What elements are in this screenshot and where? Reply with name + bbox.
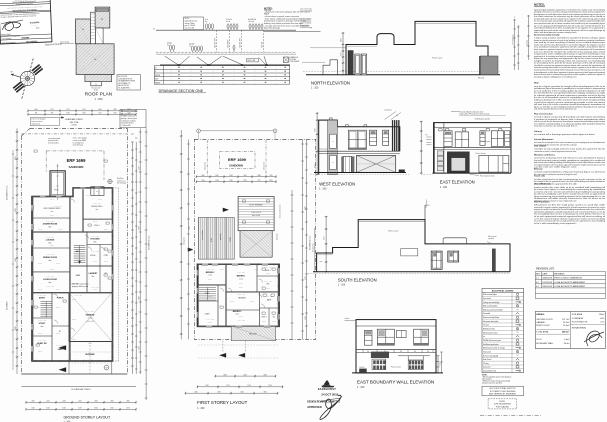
svg-text:DRIVEWAY: DRIVEWAY xyxy=(85,353,95,356)
svg-text:3234: 3234 xyxy=(240,392,243,394)
svg-text:- 110 bw -: - 110 bw - xyxy=(87,343,93,345)
svg-text:3 220: 3 220 xyxy=(305,276,307,280)
svg-text:3 470 x 4 120: 3 470 x 4 120 xyxy=(237,320,245,322)
svg-text:1218: 1218 xyxy=(127,113,130,115)
svg-text:3301: 3301 xyxy=(263,392,266,394)
svg-text:Gas Outlets: Gas Outlets xyxy=(534,144,547,147)
svg-text:INV LEVEL: INV LEVEL xyxy=(289,59,296,61)
svg-text:roof line: roof line xyxy=(345,318,350,320)
svg-text:2353: 2353 xyxy=(243,374,246,376)
svg-text:ALL STRUCTURAL SUPPORT: ALL STRUCTURAL SUPPORT xyxy=(490,387,517,390)
svg-text:3 470 x 4 120: 3 470 x 4 120 xyxy=(264,281,272,283)
svg-text:Use of Materials: Use of Materials xyxy=(534,183,552,186)
svg-text:- 110 bw -: - 110 bw - xyxy=(265,288,271,290)
svg-text:- 110 bw -: - 110 bw - xyxy=(71,319,77,321)
svg-text:to be is with immediately scal: to be is with immediately scale approved… xyxy=(534,222,577,225)
svg-text:pipe @ 1:60 fall: pipe @ 1:60 fall xyxy=(185,25,196,27)
svg-text:- 110 bw -: - 110 bw - xyxy=(103,229,109,231)
svg-text:1186: 1186 xyxy=(230,180,233,182)
svg-text:4 560: 4 560 xyxy=(139,226,141,230)
svg-text:3 470 x 4 120: 3 470 x 4 120 xyxy=(237,294,245,296)
svg-text:3 470 x 4 120: 3 470 x 4 120 xyxy=(93,203,101,205)
svg-text:289.8m²: 289.8m² xyxy=(562,331,570,334)
svg-text:3 470 x 4 120: 3 470 x 4 120 xyxy=(74,295,82,297)
svg-text:1200: 1200 xyxy=(34,109,37,111)
svg-text:1558: 1558 xyxy=(62,408,65,410)
sheet bottom dash-dot line xyxy=(480,415,541,417)
svg-text:Windows and Doors: Windows and Doors xyxy=(534,154,556,156)
svg-text:1165: 1165 xyxy=(114,113,117,115)
svg-text:SANDOWN: SANDOWN xyxy=(69,165,84,169)
svg-text:EN-S 3: EN-S 3 xyxy=(262,316,267,318)
svg-text:3 470 x 4 120: 3 470 x 4 120 xyxy=(46,221,54,223)
svg-text:40d 40d 50d: 40d 40d 50d xyxy=(248,19,256,21)
svg-text:2a: 2a xyxy=(95,84,97,86)
svg-text:3 470 x 4 120: 3 470 x 4 120 xyxy=(38,320,46,322)
svg-text:NOTES:: NOTES: xyxy=(534,2,545,6)
svg-text:GL: GL xyxy=(153,29,155,31)
svg-text:GULLY+RE: GULLY+RE xyxy=(247,60,255,62)
svg-text:2300: 2300 xyxy=(223,374,226,376)
roof note box 2 xyxy=(120,110,146,128)
svg-text:DEPTH: DEPTH xyxy=(155,75,160,77)
svg-text:3 470 x 4 120: 3 470 x 4 120 xyxy=(46,276,54,278)
north elevation right dimension lines xyxy=(512,15,530,70)
svg-text:B 2019/06: B 2019/06 xyxy=(30,22,40,24)
svg-text:1315: 1315 xyxy=(269,180,272,182)
svg-text:- 110 bw -: - 110 bw - xyxy=(253,269,259,271)
svg-text:2264: 2264 xyxy=(94,401,97,403)
svg-text:and will the specified thereto: and will the specified thereto on check … xyxy=(534,108,577,111)
svg-text:SANDOWN: SANDOWN xyxy=(229,164,243,168)
svg-text:2.5m x 1.5m splayed: 2.5m x 1.5m splayed xyxy=(73,138,87,140)
svg-text:FIRST COUNCIL SUBMISSION: FIRST COUNCIL SUBMISSION xyxy=(554,278,582,280)
svg-text:liquid toilet drainage: liquid toilet drainage xyxy=(264,27,280,30)
svg-text:boundary: boundary xyxy=(527,40,529,46)
svg-text:36.2m²: 36.2m² xyxy=(563,321,570,324)
svg-text:- 110 bw -: - 110 bw - xyxy=(55,333,61,335)
svg-text:3 470 x 4 120: 3 470 x 4 120 xyxy=(264,267,272,269)
svg-text:1112: 1112 xyxy=(99,113,102,115)
svg-text:1700: 1700 xyxy=(205,385,208,387)
svg-text:POOL: POOL xyxy=(54,190,59,192)
svg-text:2 890: 2 890 xyxy=(139,296,141,300)
svg-text:850: 850 xyxy=(400,351,402,353)
svg-text:→: → xyxy=(492,164,494,166)
svg-text:2 870: 2 870 xyxy=(341,38,343,42)
svg-text:- 110 bw -: - 110 bw - xyxy=(55,307,61,309)
svg-text:3 220: 3 220 xyxy=(15,208,17,212)
svg-text:AND VERIFIED BY ENGINEER.: AND VERIFIED BY ENGINEER. xyxy=(489,392,517,395)
svg-text:4 BDRM ROOM: 4 BDRM ROOM xyxy=(43,223,58,226)
svg-text:4 870: 4 870 xyxy=(15,156,17,160)
svg-text:AREAS:: AREAS: xyxy=(536,313,545,316)
svg-text:Date: Date xyxy=(36,26,40,29)
svg-text:2.5m x 1.5m splayed: 2.5m x 1.5m splayed xyxy=(31,119,45,121)
svg-text:1 : 100: 1 : 100 xyxy=(197,407,205,410)
svg-text:FIRST STOREY LAYOUT: FIRST STOREY LAYOUT xyxy=(197,400,247,405)
svg-text:3 470 x 4 120: 3 470 x 4 120 xyxy=(46,286,54,288)
svg-text:1587: 1587 xyxy=(78,408,81,410)
svg-text:2068: 2068 xyxy=(257,175,260,177)
svg-text:sealed in acc: sealed in acc xyxy=(117,180,126,182)
svg-text:scupper: scupper xyxy=(230,237,232,242)
svg-text:CL: CL xyxy=(155,67,157,69)
svg-text:3 470 x 4 120: 3 470 x 4 120 xyxy=(206,289,214,291)
east elevation xyxy=(420,110,511,177)
svg-text:- 110 bw -: - 110 bw - xyxy=(103,261,109,263)
svg-text:2 570: 2 570 xyxy=(341,52,343,56)
svg-text:- 110 bw -: - 110 bw - xyxy=(85,195,91,197)
svg-text:BEDROOM 4: BEDROOM 4 xyxy=(92,206,103,208)
svg-text:STUDY: STUDY xyxy=(39,323,46,325)
svg-text:1 : 100: 1 : 100 xyxy=(440,186,448,189)
svg-text:Dimmable: Dimmable xyxy=(483,313,490,315)
svg-text:1616: 1616 xyxy=(94,408,97,410)
svg-text:2141: 2141 xyxy=(46,401,49,403)
svg-text:95.9m²: 95.9m² xyxy=(563,324,570,327)
svg-text:TV: TV xyxy=(517,355,519,357)
svg-text:DATE:: DATE: xyxy=(542,273,548,276)
svg-text:03/09/2019: 03/09/2019 xyxy=(542,278,552,280)
svg-text:- 110 bw -: - 110 bw - xyxy=(37,307,43,309)
svg-text:s/s flashing: s/s flashing xyxy=(384,110,392,112)
ground storey layout plan xyxy=(6,109,151,411)
svg-text:REVISION LIST:: REVISION LIST: xyxy=(536,268,555,271)
svg-text:4.7M² REQUESTED: 4.7M² REQUESTED xyxy=(494,403,512,406)
svg-text:ON SCREED TO: ON SCREED TO xyxy=(118,83,131,85)
svg-text:3 470 x 4 120: 3 470 x 4 120 xyxy=(86,311,94,313)
svg-text:- 110 bw -: - 110 bw - xyxy=(37,351,43,353)
svg-text:2182: 2182 xyxy=(62,401,65,403)
svg-text:ST: ST xyxy=(59,331,61,333)
svg-text:Geyser/Solar feed: Geyser/Solar feed xyxy=(483,371,496,373)
drainage data table xyxy=(154,65,289,84)
svg-text:FOR GLAZING: FOR GLAZING xyxy=(496,405,509,408)
svg-text:3 470 x 4 120: 3 470 x 4 120 xyxy=(46,237,54,239)
roof plan xyxy=(60,7,114,91)
svg-text:1500: 1500 xyxy=(31,408,34,410)
svg-text:- 110 bw -: - 110 bw - xyxy=(37,289,43,291)
svg-text:1 260: 1 260 xyxy=(189,226,191,230)
municipal approval stamp (rotated, top-left) xyxy=(0,0,52,44)
svg-text:LOBBY: LOBBY xyxy=(204,313,210,315)
svg-text:110d SOIL PIPE: 110d SOIL PIPE xyxy=(215,38,217,48)
north elevation xyxy=(300,9,500,80)
svg-text:WEST ELEVATION: WEST ELEVATION xyxy=(319,181,355,186)
svg-text:- 110 bw -: - 110 bw - xyxy=(49,245,55,247)
svg-text:1385: 1385 xyxy=(113,109,116,111)
svg-text:LOUNGE: LOUNGE xyxy=(46,240,55,242)
svg-text:1059: 1059 xyxy=(82,113,85,115)
svg-text:COVERAGE: COVERAGE xyxy=(572,317,584,320)
svg-text:1762: 1762 xyxy=(247,385,250,387)
svg-text:1006: 1006 xyxy=(66,113,69,115)
svg-text:- 110 bw -: - 110 bw - xyxy=(238,283,244,285)
svg-text:balcony line: balcony line xyxy=(184,237,186,245)
svg-text:TOTAL AREA: TOTAL AREA xyxy=(536,331,549,334)
svg-text:0.1: 0.1 xyxy=(536,278,539,280)
svg-text:SITE AREA: SITE AREA xyxy=(572,313,583,316)
svg-text:70045689: 70045689 xyxy=(21,36,30,39)
svg-text:BP 70458974: BP 70458974 xyxy=(26,40,37,43)
svg-text:20/01/2020: 20/01/2020 xyxy=(542,286,552,288)
svg-text:1674: 1674 xyxy=(126,408,129,410)
svg-text:Joinery: Joinery xyxy=(534,131,543,133)
svg-text:CONCRETE ROOF: CONCRETE ROOF xyxy=(118,78,132,80)
svg-text:3100: 3100 xyxy=(194,392,197,394)
svg-text:EN-S 4: EN-S 4 xyxy=(94,225,99,227)
svg-text:850: 850 xyxy=(367,351,369,353)
svg-text:1793: 1793 xyxy=(268,385,271,387)
svg-text:SIGNATURE(S):: SIGNATURE(S): xyxy=(572,326,587,329)
svg-text:1143: 1143 xyxy=(216,180,219,182)
svg-text:CONC ROOF: CONC ROOF xyxy=(251,212,261,214)
svg-text:dp: dp xyxy=(396,115,398,117)
svg-text:1 : 100: 1 : 100 xyxy=(338,284,346,287)
svg-text:BEDRM 3: BEDRM 3 xyxy=(233,311,242,313)
svg-text:LIVING ROOM: LIVING ROOM xyxy=(43,279,57,281)
svg-text:GROUND STOREY LAYOUT: GROUND STOREY LAYOUT xyxy=(64,416,112,420)
svg-text:FLOOR FACTOR: FLOOR FACTOR xyxy=(572,320,588,323)
svg-text:UNCOVERED PATIO: UNCOVERED PATIO xyxy=(43,207,61,210)
west elevation xyxy=(310,110,409,176)
svg-text:existing to figures obligation: existing to figures obligations to resul… xyxy=(534,75,577,78)
svg-text:1 : 100: 1 : 100 xyxy=(319,188,327,191)
svg-text:3 470 x 4 120: 3 470 x 4 120 xyxy=(265,296,273,298)
svg-text:- 110 bw -: - 110 bw - xyxy=(229,301,235,303)
svg-text:- 110 bw -: - 110 bw - xyxy=(49,269,55,271)
design review committee stamp xyxy=(307,381,342,420)
svg-text:953: 953 xyxy=(51,113,54,115)
svg-text:IN GUARDIAN STREET: IN GUARDIAN STREET xyxy=(71,388,91,391)
svg-text:Solar Panel: Solar Panel xyxy=(483,359,492,361)
svg-text:3 470 x 4 120: 3 470 x 4 120 xyxy=(46,254,54,256)
svg-text:- 110 bw -: - 110 bw - xyxy=(37,263,43,265)
svg-text:NGL 0.00: NGL 0.00 xyxy=(478,77,484,79)
svg-text:NG 0.00: NG 0.00 xyxy=(359,367,364,369)
drainage section one xyxy=(153,17,299,66)
svg-text:3 470: 3 470 xyxy=(139,166,141,170)
svg-text:1422: 1422 xyxy=(127,109,130,111)
svg-text:1229: 1229 xyxy=(243,180,246,182)
south elevation xyxy=(308,199,510,273)
svg-text:1867: 1867 xyxy=(215,175,218,177)
svg-text:1 : 100: 1 : 100 xyxy=(357,386,365,389)
svg-text:Boundary line: Boundary line xyxy=(313,243,315,252)
svg-text:- 110 bw -: - 110 bw - xyxy=(249,301,255,303)
svg-text:1 : 200: 1 : 200 xyxy=(95,97,103,101)
svg-text:GARAGE: GARAGE xyxy=(85,314,95,317)
svg-text:TV: TV xyxy=(517,309,519,311)
svg-text:6 420: 6 420 xyxy=(15,326,17,330)
svg-text:- 110 bw -: - 110 bw - xyxy=(57,229,63,231)
svg-text:0.3: 0.3 xyxy=(536,286,539,288)
svg-text:eaves o/hang: eaves o/hang xyxy=(60,42,69,44)
svg-text:1731: 1731 xyxy=(226,385,229,387)
svg-text:- 110 bw -: - 110 bw - xyxy=(37,333,43,335)
svg-text:2305: 2305 xyxy=(110,401,113,403)
svg-text:- 110 bw -: - 110 bw - xyxy=(49,199,55,201)
svg-text:ROOF TERRACE: ROOF TERRACE xyxy=(249,204,263,207)
svg-text:2135: 2135 xyxy=(269,175,272,177)
svg-text:PORCH: PORCH xyxy=(57,298,64,300)
svg-text:ERF 1699: ERF 1699 xyxy=(67,158,87,163)
areas summary table xyxy=(535,312,605,349)
svg-text:- 110 bw -: - 110 bw - xyxy=(71,299,77,301)
svg-text:40d 40d: 40d 40d xyxy=(189,44,194,46)
svg-text:ERF 170A: ERF 170A xyxy=(70,121,79,124)
svg-text:Environmentally friendly: Environmentally friendly xyxy=(534,33,560,36)
svg-text:1800: 1800 xyxy=(201,175,204,177)
svg-text:FIRST FLOOR: FIRST FLOOR xyxy=(536,325,550,327)
svg-text:3 470 x 4 120: 3 470 x 4 120 xyxy=(91,287,99,289)
svg-text:Towel rails: Towel rails xyxy=(534,176,546,178)
east boundary wall elevation xyxy=(345,318,444,373)
svg-text:Play Construction: Play Construction xyxy=(534,112,553,115)
roof note box 1 xyxy=(117,75,141,90)
svg-text:conc roof on w/p: conc roof on w/p xyxy=(300,9,312,11)
svg-text:3 470 x 4 120: 3 470 x 4 120 xyxy=(206,269,214,271)
svg-text:2406: 2406 xyxy=(263,374,266,376)
svg-text:44.3m: 44.3m xyxy=(564,343,570,345)
svg-text:DIST: DIST xyxy=(155,79,159,81)
svg-text:- 110 bw -: - 110 bw - xyxy=(265,273,271,275)
svg-text:157.7m²: 157.7m² xyxy=(562,318,570,321)
svg-text:Interior Alterations: Interior Alterations xyxy=(534,138,554,141)
svg-text:5 120: 5 120 xyxy=(139,346,141,350)
svg-text:LOCAL AUTHORITY AMENDMENT: LOCAL AUTHORITY AMENDMENT xyxy=(554,285,586,288)
svg-text:1311: 1311 xyxy=(83,109,86,111)
svg-text:- 110 bw -: - 110 bw - xyxy=(207,296,213,298)
svg-text:2001: 2001 xyxy=(243,175,246,177)
svg-text:3167: 3167 xyxy=(217,392,220,394)
svg-text:GUARDIAN STREET: GUARDIAN STREET xyxy=(65,118,84,121)
svg-text:- 110 bw -: - 110 bw - xyxy=(92,221,98,223)
svg-text:4 970 x 5 470: 4 970 x 5 470 xyxy=(86,321,95,323)
svg-text:contractor in terms a should a: contractor in terms a should approved co… xyxy=(534,150,577,153)
north point compass xyxy=(11,59,43,99)
svg-text:ENTRY: ENTRY xyxy=(39,298,46,300)
svg-text:NORTH ELEVATION: NORTH ELEVATION xyxy=(311,80,350,85)
svg-text:EN-S 1: EN-S 1 xyxy=(265,270,270,272)
svg-text:b s wb: b s wb xyxy=(226,21,230,23)
svg-text:40%: 40% xyxy=(600,318,604,320)
svg-text:4 870: 4 870 xyxy=(305,206,307,210)
svg-text:IL: IL xyxy=(155,71,156,73)
svg-text:ROOF PLAN: ROOF PLAN xyxy=(85,91,112,96)
svg-text:Fire Protection: Fire Protection xyxy=(534,200,550,203)
svg-text:paving on 100 conc slab: paving on 100 conc slab xyxy=(72,286,88,288)
svg-text:- 110 bw -: - 110 bw - xyxy=(207,279,213,281)
svg-text:conc roof below: conc roof below xyxy=(202,230,204,240)
svg-text:- 110 bw -: - 110 bw - xyxy=(261,321,267,323)
svg-text:2100: 2100 xyxy=(31,401,34,403)
svg-text:12/12/2019: 12/12/2019 xyxy=(542,282,552,284)
svg-text:2 570: 2 570 xyxy=(324,236,326,240)
svg-text:5 140: 5 140 xyxy=(15,258,17,262)
svg-text:- 110 bw -: - 110 bw - xyxy=(238,287,244,289)
svg-text:GROUND FLOOR: GROUND FLOOR xyxy=(536,319,553,321)
svg-text:HALL: HALL xyxy=(76,250,80,253)
svg-text:W: W xyxy=(11,72,13,74)
svg-text:on cement will a drawings prem: on cement will a drawings premises taken… xyxy=(534,133,595,136)
svg-text:Slab: Slab xyxy=(534,83,539,85)
svg-text:KITCHEN: KITCHEN xyxy=(91,239,100,241)
svg-text:3 470 x 4 120: 3 470 x 4 120 xyxy=(237,272,245,274)
svg-text:ELECTRICAL LEGEND: ELECTRICAL LEGEND xyxy=(492,289,514,292)
svg-text:ERF 1699: ERF 1699 xyxy=(228,157,247,162)
svg-text:0.2: 0.2 xyxy=(536,282,539,284)
svg-text:744m²: 744m² xyxy=(599,313,605,316)
glazing note box xyxy=(488,399,517,409)
svg-text:TV: TV xyxy=(517,332,519,334)
first storey layout plan xyxy=(180,129,316,395)
svg-text:850: 850 xyxy=(427,351,429,353)
svg-text:- 110 bw -: - 110 bw - xyxy=(37,229,43,231)
svg-text:3 470 x 4 120: 3 470 x 4 120 xyxy=(206,319,214,321)
drainage notes block xyxy=(264,8,321,31)
svg-text:EAST ELEVATION: EAST ELEVATION xyxy=(440,180,475,185)
svg-text:- 110 bw -: - 110 bw - xyxy=(219,269,225,271)
svg-text:MECHANIC: MECHANIC xyxy=(554,273,565,276)
svg-text:DRAINAGE SECTION ONE: DRAINAGE SECTION ONE xyxy=(159,89,204,93)
svg-text:2 100: 2 100 xyxy=(440,362,442,366)
svg-text:1 : 100: 1 : 100 xyxy=(311,87,319,90)
svg-text:110d SOIL PIPE: 110d SOIL PIPE xyxy=(240,38,242,48)
svg-text:NOTE:: NOTE: xyxy=(500,401,506,403)
svg-text:APPROVED: APPROVED xyxy=(307,405,322,409)
svg-text:1645: 1645 xyxy=(110,408,113,410)
svg-text:- 110 bw -: - 110 bw - xyxy=(71,339,77,341)
svg-text:900: 900 xyxy=(35,113,38,115)
svg-text:(17M): (17M) xyxy=(72,125,77,127)
svg-text:24 OCT 2019: 24 OCT 2019 xyxy=(321,392,338,396)
svg-text:1348: 1348 xyxy=(98,109,101,111)
svg-text:3 470 x 4 120: 3 470 x 4 120 xyxy=(38,295,46,297)
svg-text:as per schedule: as per schedule xyxy=(300,23,311,25)
svg-text:BEDRM 1: BEDRM 1 xyxy=(237,276,246,278)
svg-text:NOTE:: NOTE: xyxy=(482,374,488,376)
svg-text:- 110 bw -: - 110 bw - xyxy=(55,289,61,291)
svg-text:2346: 2346 xyxy=(126,401,129,403)
svg-text:bagged finish: bagged finish xyxy=(300,25,310,27)
svg-text:- 110 bw -: - 110 bw - xyxy=(55,263,61,265)
svg-text:1934: 1934 xyxy=(229,175,232,177)
revision list table xyxy=(535,268,605,299)
structural support note box xyxy=(482,386,524,396)
svg-text:870: 870 xyxy=(425,135,427,137)
svg-text:GARAGE: GARAGE xyxy=(536,321,545,324)
svg-text:s b: s b xyxy=(189,45,191,47)
electrical legend table xyxy=(482,288,524,372)
svg-text:1529: 1529 xyxy=(46,408,49,410)
svg-text:2 870: 2 870 xyxy=(315,128,317,132)
svg-text:NOTE:: NOTE: xyxy=(185,18,190,20)
svg-text:- 110 bw -: - 110 bw - xyxy=(49,215,55,217)
svg-text:0.0m²: 0.0m² xyxy=(564,338,569,341)
svg-text:3 470 x 4 120: 3 470 x 4 120 xyxy=(91,251,99,253)
svg-text:- 110 bw -: - 110 bw - xyxy=(92,289,98,291)
svg-text:3 470 x 4 120: 3 470 x 4 120 xyxy=(54,206,62,208)
svg-text:3 470 x 4 120: 3 470 x 4 120 xyxy=(38,340,46,342)
svg-text:2223: 2223 xyxy=(78,401,81,403)
svg-text:3 470 x 4 120: 3 470 x 4 120 xyxy=(91,236,99,238)
svg-text:EAST BOUNDARY WALL ELEVATION: EAST BOUNDARY WALL ELEVATION xyxy=(357,380,434,385)
svg-text:s b sh wb: s b sh wb xyxy=(248,21,254,23)
electrical legend footnote xyxy=(482,374,512,384)
svg-text:- 110 bw -: - 110 bw - xyxy=(271,321,277,323)
